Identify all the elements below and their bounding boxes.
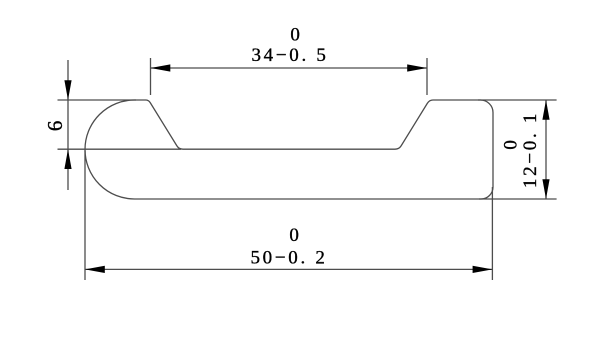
arrow 34 right (407, 64, 427, 71)
extension line top-left (6 dim / part top) (58, 99, 137, 101)
arrow 50 left (85, 266, 105, 273)
arrow 34 left (151, 64, 171, 71)
extension line 34 right (426, 58, 428, 95)
dimension line 50 (85, 268, 492, 270)
dimension line 34 (151, 67, 428, 69)
dimension line 6 (67, 60, 69, 190)
svg-text:12−0. 1: 12−0. 1 (520, 111, 541, 188)
part outline (85, 100, 493, 199)
arrow 12 bottom (542, 179, 549, 199)
extension line 50 right (491, 187, 493, 280)
svg-text:0: 0 (289, 225, 301, 246)
extension line 34 left (150, 58, 152, 95)
extension line recessed surface (6 dim bottom) (58, 148, 182, 150)
svg-text:0: 0 (501, 137, 522, 149)
svg-text:34−0. 5: 34−0. 5 (251, 45, 328, 66)
arrow 6 top (outside, pointing down) (64, 80, 71, 100)
svg-text:50−0. 2: 50−0. 2 (250, 248, 327, 269)
arrow 12 top (542, 100, 549, 120)
svg-text:0: 0 (290, 25, 302, 46)
extension line bottom-right (12 dim bottom) (479, 198, 557, 200)
dimension line 12 (545, 100, 547, 199)
extension line 50 left (84, 151, 86, 281)
extension line top-right (12 dim top) (478, 99, 557, 101)
arrow 50 right (473, 266, 493, 273)
svg-text:6: 6 (43, 118, 67, 131)
arrow 6 bottom (outside, pointing up) (64, 149, 71, 169)
